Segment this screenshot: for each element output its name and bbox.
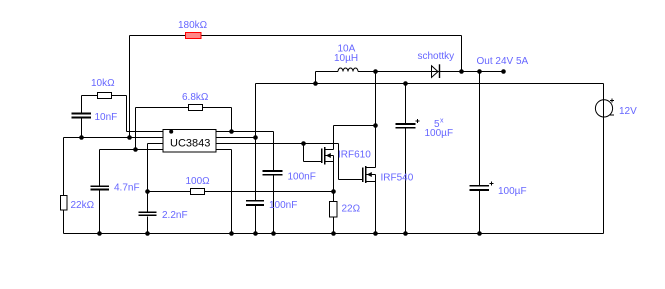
svg-text:IRF540: IRF540 xyxy=(381,173,414,184)
svg-text:UC3843: UC3843 xyxy=(170,137,210,149)
svg-text:Out 24V 5A: Out 24V 5A xyxy=(477,56,529,67)
svg-text:6.8kΩ: 6.8kΩ xyxy=(182,92,209,103)
svg-text:100nF: 100nF xyxy=(288,172,316,183)
svg-text:100Ω: 100Ω xyxy=(186,176,211,187)
svg-text:10µH: 10µH xyxy=(334,53,358,64)
svg-text:22Ω: 22Ω xyxy=(342,204,361,215)
svg-text:10nF: 10nF xyxy=(95,112,118,123)
svg-text:100µF: 100µF xyxy=(425,128,454,139)
svg-text:IRF610: IRF610 xyxy=(338,150,371,161)
svg-text:x: x xyxy=(440,118,444,125)
svg-text:10kΩ: 10kΩ xyxy=(91,78,115,89)
svg-text:schottky: schottky xyxy=(418,51,455,62)
svg-text:100nF: 100nF xyxy=(269,200,297,211)
svg-text:100µF: 100µF xyxy=(498,186,527,197)
svg-text:12V: 12V xyxy=(619,106,637,117)
svg-text:2.2nF: 2.2nF xyxy=(162,210,188,221)
svg-text:22kΩ: 22kΩ xyxy=(71,200,95,211)
svg-text:4.7nF: 4.7nF xyxy=(114,183,140,194)
svg-text:180kΩ: 180kΩ xyxy=(178,20,208,31)
